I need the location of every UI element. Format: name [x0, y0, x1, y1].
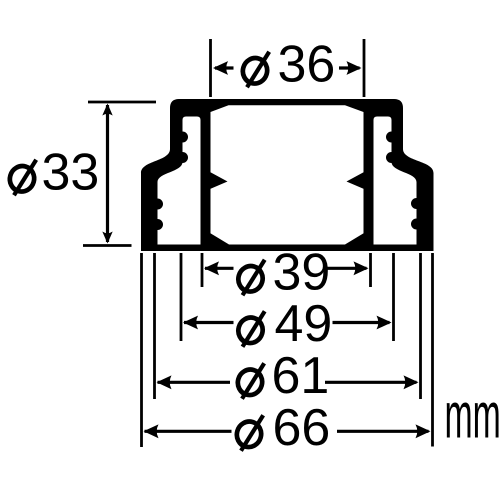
dimension phi66: left extension line [140, 253, 143, 447]
barb on right inner wall [347, 172, 365, 189]
right channel cavity [374, 117, 417, 245]
svg-text:39: 39 [273, 244, 331, 302]
barb on left inner wall [210, 172, 228, 189]
dimension phi61: phi symbol [235, 363, 265, 399]
foot wedge right inner wall [343, 233, 365, 246]
dimension phi33: bottom extension line [83, 244, 132, 247]
dimension phi36: right arrow [339, 66, 360, 69]
dimension phi36: right tick [363, 39, 366, 97]
rib bump lower-right wall 2 [411, 219, 422, 230]
bore cavity [211, 105, 364, 244]
dimension phi33: vertical line with arrows [106, 105, 109, 242]
profile cross-section silhouette [141, 99, 434, 251]
dimension phi36: left arrow [215, 66, 234, 69]
dimension phi33: top extension line [88, 101, 156, 104]
dimension phi61: right arrow [325, 381, 417, 384]
dimension phi39: right extension line [369, 253, 372, 287]
dimension phi33: phi symbol [7, 160, 37, 196]
foot wedge left inner wall [210, 233, 232, 246]
dimension phi49: right extension line [392, 253, 395, 341]
dimension phi66: right extension line [431, 253, 434, 447]
svg-text:66: 66 [273, 399, 331, 457]
dimension phi49: left extension line [180, 253, 183, 341]
svg-text:49: 49 [275, 295, 333, 353]
dimension phi39: right arrow [326, 267, 367, 270]
dimension phi61: left arrow [158, 381, 231, 384]
dimension phi39: left extension line [201, 253, 204, 287]
rib bump lower-left wall 1 [152, 199, 163, 210]
dimension phi49: left arrow [184, 321, 234, 324]
dimension phi36: left tick [209, 39, 212, 97]
rib bump upper-left wall 1 [177, 132, 188, 143]
rib bump upper-right wall 2 [386, 152, 397, 163]
rib bump upper-left wall 2 [177, 152, 188, 163]
svg-text:33: 33 [42, 144, 100, 202]
svg-text:36: 36 [278, 36, 336, 94]
dimension phi39: phi symbol [235, 260, 265, 296]
dimension phi66: phi symbol [234, 415, 264, 451]
dimension phi39: left arrow [205, 267, 234, 270]
rib bump upper-right wall 1 [386, 132, 397, 143]
dimension phi61: right extension line [419, 253, 422, 399]
dimension phi66: right arrow [337, 430, 429, 433]
dimension phi49: right arrow [333, 321, 390, 324]
svg-text:mm: mm [445, 379, 500, 452]
dimension phi61: left extension line [153, 253, 156, 399]
rib bump lower-left wall 2 [152, 219, 163, 230]
dimension phi36: phi symbol [240, 52, 270, 88]
svg-text:61: 61 [272, 347, 330, 405]
rib bump lower-right wall 1 [411, 198, 422, 209]
dimension phi66: left arrow [145, 430, 232, 433]
dimension phi49: phi symbol [235, 311, 265, 347]
left channel cavity [158, 117, 201, 245]
